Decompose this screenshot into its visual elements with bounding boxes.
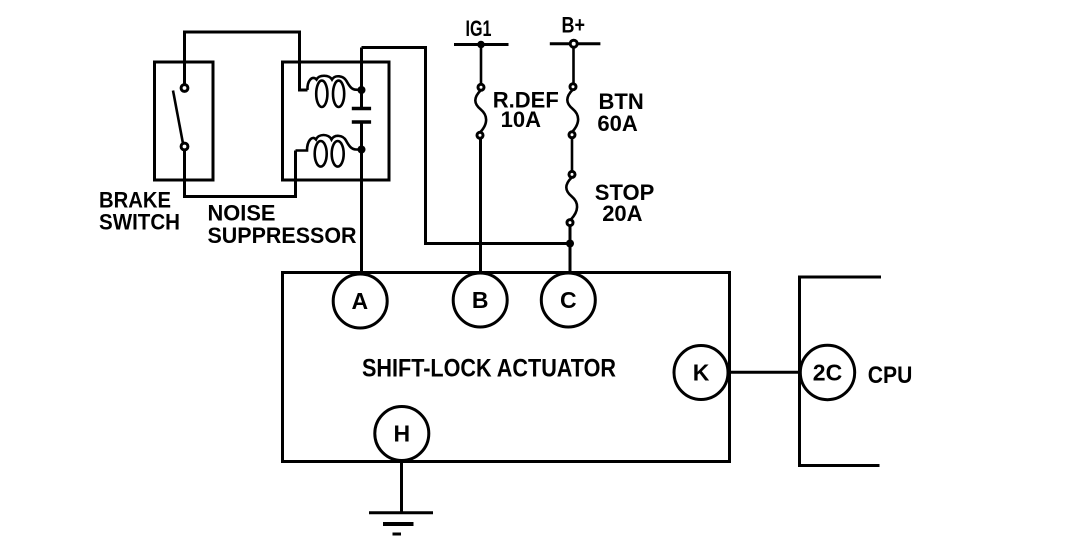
- svg-text:K: K: [693, 360, 710, 386]
- wire: brake switch bottom to noise suppressor bottom coil: [185, 150, 296, 197]
- B+ terminal bar: [550, 42, 601, 45]
- brake switch contact lower: [181, 143, 188, 150]
- node B+: [570, 40, 577, 47]
- terminal K: [674, 346, 728, 400]
- svg-text:SWITCH: SWITCH: [99, 210, 180, 235]
- fuse BTN 60A: [567, 84, 578, 138]
- wire: brake switch top to noise suppressor top coil: [185, 32, 308, 90]
- wire: B+ to fuse BTN: [572, 47, 575, 83]
- wire: H to ground: [400, 460, 403, 512]
- brake switch contact upper: [181, 85, 188, 92]
- terminal B: [453, 273, 507, 327]
- terminal 2C: [800, 345, 854, 399]
- svg-text:B: B: [472, 287, 489, 313]
- node: coil/cap bottom junction: [358, 146, 366, 154]
- wire: vertical bus through capacitor down to terminal A: [360, 48, 363, 274]
- brake switch box: [155, 62, 214, 180]
- svg-text:SHIFT-LOCK ACTUATOR: SHIFT-LOCK ACTUATOR: [362, 354, 616, 382]
- svg-text:A: A: [351, 288, 368, 314]
- brake switch blade: [173, 91, 183, 144]
- svg-text:60A: 60A: [597, 111, 637, 136]
- node: coil/cap top junction: [358, 86, 366, 94]
- node IG1: [477, 41, 485, 49]
- node: junction at stop fuse output: [566, 240, 574, 248]
- inductor L1 (top coil): [307, 76, 361, 107]
- svg-text:IG1: IG1: [466, 16, 492, 41]
- wire: K to 2C: [728, 371, 801, 374]
- terminal C: [541, 273, 595, 327]
- svg-text:20A: 20A: [602, 201, 642, 226]
- wire: IG1 to fuse: [480, 45, 483, 85]
- fuse STOP 20A: [566, 171, 577, 225]
- IG1 terminal bar: [454, 43, 509, 46]
- fuse R.DEF 10A: [475, 84, 486, 138]
- noise suppressor box: [283, 62, 390, 180]
- svg-text:C: C: [560, 287, 577, 313]
- svg-text:2C: 2C: [813, 360, 842, 386]
- wire: noise suppressor to stop fuse output: [362, 48, 571, 244]
- svg-text:H: H: [393, 421, 410, 447]
- ground: [369, 513, 433, 534]
- shift-lock actuator box: [283, 273, 730, 462]
- svg-text:SUPPRESSOR: SUPPRESSOR: [208, 223, 357, 248]
- terminal H: [375, 407, 429, 461]
- svg-text:B+: B+: [562, 12, 586, 37]
- svg-text:10A: 10A: [501, 107, 541, 132]
- capacitor C1: [352, 109, 371, 123]
- wire: fuse to terminal B: [479, 138, 482, 273]
- CPU box bracket: [800, 277, 882, 466]
- inductor L2 (bottom coil): [296, 135, 362, 167]
- svg-text:CPU: CPU: [868, 362, 913, 389]
- wire: BTN to STOP: [571, 138, 574, 172]
- terminal A: [333, 274, 387, 328]
- wire: STOP fuse to terminal C: [569, 226, 572, 274]
